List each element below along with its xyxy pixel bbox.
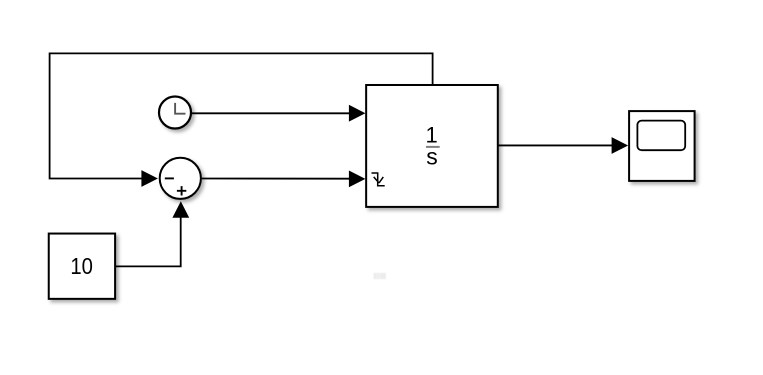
svg-text:s: s [426,144,438,170]
clock block U1 [159,97,191,129]
scope screen [637,121,685,151]
scope block [629,111,695,181]
constant value label 10 [70,253,93,280]
integrator fraction bar [426,146,440,148]
arrowhead into sum bottom (plus) input [172,201,189,218]
wire integrator output to scope [498,144,613,146]
arrowhead into scope input [612,137,629,154]
integrator denominator s [426,144,438,170]
wire state-port feedback loop (integrator top to sum minus input) [50,53,433,178]
faint badge mark [374,273,386,279]
wire constant to sum plus input [116,217,181,266]
integrator numerator 1 [425,123,437,148]
integrator falling-edge reset icon [372,173,385,186]
sum plus sign [177,186,186,195]
sum block [160,158,201,199]
wire sum output to integrator reset input [202,178,351,180]
arrowhead into sum left (minus) input [141,170,158,187]
wire clock to integrator input 1 [192,112,351,114]
svg-text:10: 10 [70,253,93,280]
arrowhead into integrator lower (reset) input [349,171,366,188]
clock hands [175,103,185,114]
integrator block 1/s [366,85,498,207]
constant block value 10 [49,234,115,299]
sum minus sign [165,177,174,179]
arrowhead into integrator upper input [349,105,366,122]
